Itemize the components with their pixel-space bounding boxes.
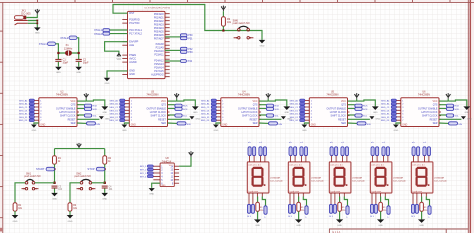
- wire: [104, 164, 106, 184]
- port STOP: [87, 167, 104, 171]
- svg-text:push switch NO: push switch NO: [24, 175, 40, 178]
- wire: [53, 164, 55, 184]
- port XTAL1/XTAL2 at U1: [94, 28, 110, 36]
- svg-text:GND: GND: [161, 185, 166, 187]
- power flag VCC: [35, 9, 40, 15]
- resistor R1a pull-up: [53, 156, 62, 165]
- wire: [57, 62, 59, 67]
- wire: [165, 60, 180, 62]
- capacitor C2: [76, 59, 89, 65]
- wire: [56, 44, 59, 59]
- power flag VCC: [116, 53, 121, 61]
- ground: [75, 67, 82, 75]
- wire: [222, 11, 224, 17]
- connector JK1 DC power jack: [14, 9, 31, 25]
- switch SW1: [22, 173, 41, 190]
- svg-text:74HC595N: 74HC595N: [56, 93, 68, 96]
- wire EA/VPP to VCC: [105, 42, 128, 54]
- power flag VCC: [221, 6, 226, 12]
- shift register U5 74HC595: [289, 90, 380, 132]
- svg-text:Com-Cathode: Com-Cathode: [311, 179, 325, 182]
- svg-text:GND: GND: [149, 194, 154, 196]
- U1 left pins: [122, 20, 127, 75]
- wire: [165, 49, 180, 51]
- resistor R9: [222, 17, 232, 27]
- svg-text:P31: P31: [188, 38, 193, 41]
- svg-text:P33: P33: [188, 51, 193, 54]
- svg-text:30pF: 30pF: [83, 61, 89, 64]
- svg-text:E 1 1 A: E 1 1 A: [333, 231, 341, 233]
- power flag VCC: [188, 151, 193, 157]
- port XTAL2: [60, 36, 77, 40]
- wire: [26, 15, 38, 28]
- port XTAL1: [39, 42, 56, 46]
- display LED1 7-segment: [247, 142, 284, 227]
- svg-text:GND: GND: [52, 199, 57, 201]
- svg-text:KEY_4: KEY_4: [140, 176, 147, 178]
- svg-text:LG3641AH: LG3641AH: [270, 176, 281, 179]
- svg-text:P23/A11: P23/A11: [154, 54, 164, 57]
- svg-text:74HC595N: 74HC595N: [238, 93, 250, 96]
- wire: [107, 71, 128, 78]
- port P30/P31: [180, 34, 193, 41]
- display LED3 7-segment: [329, 142, 366, 227]
- power flag VCC: [76, 143, 81, 149]
- svg-text:push switch NO: push switch NO: [75, 175, 91, 178]
- ground: [101, 193, 108, 201]
- svg-text:GND: GND: [105, 83, 110, 85]
- svg-text:XTAL2: XTAL2: [60, 36, 69, 40]
- svg-text:STOP: STOP: [87, 167, 94, 171]
- svg-text:RST: RST: [129, 12, 134, 15]
- svg-text:LG3641AH: LG3641AH: [352, 176, 363, 179]
- svg-text:P34: P34: [188, 60, 193, 63]
- svg-text:P17 XTAL2: P17 XTAL2: [129, 32, 142, 35]
- svg-text:AVCC: AVCC: [129, 57, 136, 60]
- switch SW6: [233, 19, 254, 39]
- capacitor C1: [55, 59, 68, 65]
- svg-text:START: START: [36, 167, 45, 171]
- shift register U3 74HC595: [109, 90, 200, 132]
- capacitor C3: [52, 186, 63, 192]
- ground: [67, 215, 74, 223]
- svg-text:GND: GND: [260, 46, 265, 48]
- svg-text:GND: GND: [13, 221, 18, 223]
- svg-text:GND: GND: [68, 221, 73, 223]
- svg-text:XTAL2: XTAL2: [94, 32, 103, 36]
- svg-text:GND: GND: [35, 33, 40, 35]
- svg-text:Com-Cathode: Com-Cathode: [393, 179, 407, 182]
- svg-text:KEY_1: KEY_1: [140, 166, 147, 168]
- resistor R2b pull-down: [68, 203, 78, 212]
- svg-text:KEY_3: KEY_3: [140, 173, 147, 175]
- wire: [165, 36, 180, 38]
- wire: [15, 183, 55, 203]
- U1 right pins: [165, 14, 170, 77]
- svg-text:VCC: VCC: [116, 59, 121, 61]
- svg-text:Com-Cathode: Com-Cathode: [352, 179, 366, 182]
- svg-text:ALE/PROG: ALE/PROG: [151, 74, 164, 77]
- display LED2 7-segment: [288, 142, 325, 227]
- title block: [329, 229, 468, 234]
- svg-text:push switch NO: push switch NO: [233, 22, 250, 25]
- svg-text:30pF: 30pF: [63, 61, 69, 64]
- svg-text:ALE: ALE: [129, 44, 134, 47]
- shift register U2 74HC595: [19, 90, 110, 132]
- svg-text:Com-Cathode: Com-Cathode: [270, 179, 284, 182]
- svg-text:P31/TXD: P31/TXD: [129, 22, 139, 25]
- crystal X1: [57, 43, 79, 56]
- ground: [51, 193, 58, 201]
- display LED4 7-segment: [370, 142, 407, 227]
- svg-text:74HC595N: 74HC595N: [326, 93, 338, 96]
- microcontroller U1: [128, 7, 171, 78]
- svg-text:P07/AD7: P07/AD7: [154, 37, 164, 40]
- svg-text:74HC595N: 74HC595N: [146, 93, 158, 96]
- svg-text:AGND: AGND: [129, 61, 136, 64]
- resistor R1b pull-down: [13, 203, 23, 212]
- svg-text:12MHz: 12MHz: [64, 46, 73, 50]
- svg-text:Com-Cathode: Com-Cathode: [434, 179, 448, 182]
- svg-text:LG3641AH: LG3641AH: [393, 176, 404, 179]
- display LED5 7-segment: [411, 142, 448, 227]
- ground: [259, 40, 266, 48]
- svg-text:74HC595N: 74HC595N: [418, 93, 430, 96]
- port START: [36, 167, 55, 171]
- svg-text:U1 STC89C52RC-PDIP40: U1 STC89C52RC-PDIP40: [145, 7, 171, 9]
- wire: [110, 30, 128, 34]
- svg-text:GND: GND: [56, 72, 61, 74]
- svg-text:KEY_2: KEY_2: [140, 170, 147, 172]
- inverter U8 74HC14: [140, 157, 179, 187]
- ground: [12, 215, 19, 223]
- wire: [179, 157, 191, 166]
- svg-text:P16 XTAL1: P16 XTAL1: [129, 29, 142, 32]
- resistor R2a pull-up: [103, 156, 112, 165]
- port P34: [180, 60, 192, 64]
- svg-text:DC-005: DC-005: [21, 11, 31, 15]
- wire: [104, 189, 106, 193]
- wire: [55, 149, 105, 156]
- svg-text:LG3641AH: LG3641AH: [311, 176, 322, 179]
- ground: [149, 188, 155, 196]
- ground: [34, 27, 41, 34]
- svg-text:GND: GND: [102, 199, 107, 201]
- svg-text:XTAL1: XTAL1: [94, 28, 103, 32]
- svg-text:GND: GND: [76, 72, 81, 74]
- port P32/P33: [180, 47, 193, 54]
- wire: [78, 62, 80, 67]
- ground: [55, 67, 62, 75]
- svg-text:XTAL1: XTAL1: [39, 42, 48, 46]
- svg-text:LG3641AH: LG3641AH: [434, 176, 445, 179]
- wire: [14, 211, 16, 215]
- shift register U6 74HC595: [381, 90, 472, 132]
- wire: [69, 211, 71, 215]
- wire: [152, 183, 160, 188]
- wire: [222, 26, 224, 31]
- wire RST net: [113, 5, 262, 40]
- svg-text:GND: GND: [129, 73, 135, 76]
- shift register U4 74HC595: [201, 90, 292, 132]
- switch SW2: [75, 173, 96, 190]
- capacitor C4: [102, 186, 113, 192]
- wire: [70, 183, 105, 203]
- wire: [54, 189, 56, 193]
- ground: [104, 78, 111, 85]
- wire: [77, 38, 79, 59]
- svg-text:VCC: VCC: [169, 165, 174, 167]
